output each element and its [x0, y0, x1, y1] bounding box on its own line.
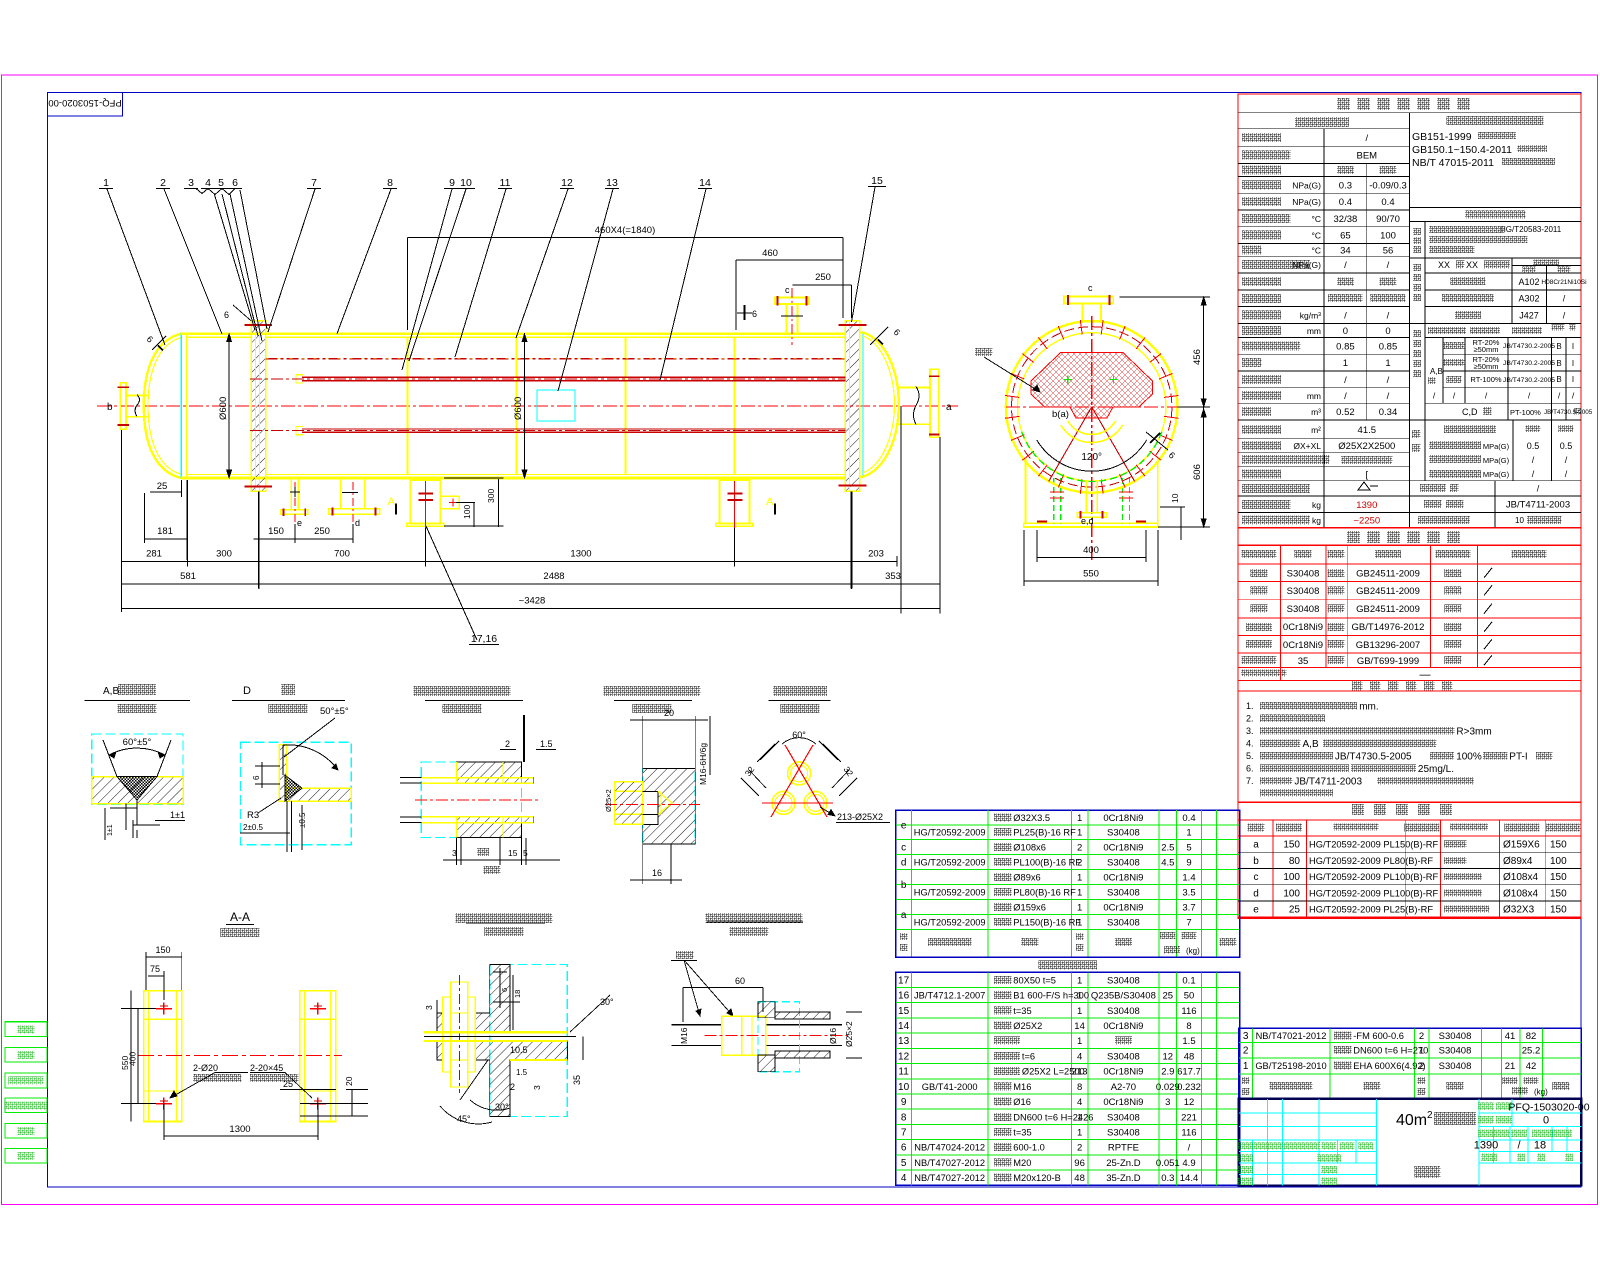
- svg-text:2.: 2.: [1246, 714, 1254, 724]
- svg-text:e: e: [901, 820, 907, 831]
- svg-text:8: 8: [901, 1112, 907, 1123]
- svg-text:A: A: [766, 496, 774, 508]
- svg-text:0.4: 0.4: [1339, 197, 1352, 208]
- svg-text:PFQ-1503020-00: PFQ-1503020-00: [1508, 1102, 1589, 1114]
- svg-text:3: 3: [452, 848, 457, 858]
- svg-text:0Cr18Ni9: 0Cr18Ni9: [1103, 872, 1143, 883]
- svg-text:50°±5°: 50°±5°: [320, 706, 349, 717]
- bolt circle tick marks: [1164, 416, 1178, 418]
- dim row3: [122, 583, 941, 585]
- svg-text:2: 2: [510, 1082, 515, 1092]
- detail tubesheet hatch upper: [457, 762, 534, 783]
- svg-text:100%: 100%: [1456, 752, 1482, 763]
- detail tie-rod tubesheet hatch: [643, 769, 696, 844]
- dim dia600 mid: [524, 334, 526, 478]
- svg-text:14: 14: [699, 177, 711, 189]
- detail tube-tubesheet cyan boundary: [421, 762, 521, 838]
- svg-text:Ø159X6: Ø159X6: [1503, 840, 1540, 851]
- dim row4 overall: [122, 608, 941, 610]
- svg-text:12: 12: [1184, 1097, 1195, 1108]
- svg-text:JB/T4711-2003: JB/T4711-2003: [1506, 500, 1570, 511]
- svg-text:34: 34: [1340, 245, 1351, 256]
- svg-text:B: B: [1556, 375, 1561, 384]
- right tubesheet with girth flanges: [845, 321, 859, 492]
- svg-text:300: 300: [486, 489, 496, 503]
- svg-text:A2-70: A2-70: [1111, 1082, 1136, 1093]
- nozzle e neck: [290, 478, 292, 510]
- svg-text:B: B: [1556, 359, 1561, 368]
- svg-text:H08Cr21Ni10Si: H08Cr21Ni10Si: [1541, 279, 1586, 286]
- dim 400 bottom: [1037, 557, 1146, 559]
- svg-text:PT-100%: PT-100%: [1510, 408, 1541, 417]
- detail tube-tubesheet title: [413, 686, 510, 696]
- svg-text:/: /: [1387, 375, 1390, 386]
- svg-text:16: 16: [898, 991, 910, 1002]
- svg-text:GB151-1999: GB151-1999: [1412, 131, 1472, 143]
- leader lines 3456: [214, 193, 255, 330]
- svg-text:2488: 2488: [543, 571, 564, 582]
- svg-text:96: 96: [1074, 1158, 1085, 1169]
- svg-text:Ø600: Ø600: [218, 397, 229, 420]
- svg-text:6: 6: [252, 775, 261, 780]
- svg-text:a: a: [901, 910, 907, 921]
- rod-baffle dim 60: [683, 987, 763, 989]
- svg-text:250: 250: [815, 272, 831, 283]
- svg-text:/: /: [1344, 311, 1347, 322]
- svg-text:A-A: A-A: [230, 910, 250, 924]
- detail tube wall top: [421, 777, 533, 779]
- right flange bolts bottom: [838, 484, 866, 486]
- A-A dim 150: [146, 956, 182, 958]
- svg-text:c: c: [1088, 283, 1093, 293]
- svg-text:t=35: t=35: [1013, 1128, 1031, 1138]
- svg-text:6: 6: [224, 310, 229, 320]
- dim 100 saddle lug: [473, 503, 475, 527]
- detail D angle arc: [282, 745, 284, 775]
- svg-text:—: —: [1420, 669, 1431, 681]
- svg-text:I: I: [1572, 342, 1574, 351]
- svg-text:100: 100: [462, 505, 472, 519]
- svg-text:4: 4: [1077, 1097, 1082, 1108]
- svg-text:1: 1: [1077, 903, 1082, 914]
- svg-text:20: 20: [664, 708, 674, 718]
- svg-text:≥50mm: ≥50mm: [1474, 345, 1499, 354]
- dim row1 150: [254, 538, 295, 540]
- rod-baffle baffle hatch: [758, 1002, 830, 1020]
- svg-text:JB/T4730.5-2005: JB/T4730.5-2005: [1335, 752, 1412, 763]
- svg-text:25-Zn.D: 25-Zn.D: [1106, 1158, 1140, 1169]
- svg-text:M16: M16: [679, 1027, 689, 1044]
- design params value subheader: [1337, 166, 1354, 174]
- end view bottom nozzle flange: [1077, 513, 1106, 518]
- left margin signature boxes: [5, 1022, 47, 1037]
- left dished head: [144, 334, 181, 478]
- nozzle e flange: [281, 510, 308, 515]
- svg-text:NPa(G): NPa(G): [1292, 197, 1321, 207]
- A-A dim 75: [148, 975, 164, 977]
- svg-text:60°±5°: 60°±5°: [123, 737, 152, 748]
- detail tie-rod dim 20: [642, 716, 644, 768]
- svg-text:42: 42: [1526, 1061, 1537, 1072]
- heat treat / transport rows: [1420, 484, 1446, 492]
- design params grid rows: [1238, 146, 1410, 148]
- svg-text:250: 250: [314, 526, 330, 537]
- svg-text:Q235B/S30408: Q235B/S30408: [1091, 991, 1156, 1002]
- svg-text:1: 1: [1077, 828, 1082, 839]
- svg-text:60: 60: [735, 976, 745, 986]
- end view nozzle c flange: [1064, 297, 1113, 304]
- svg-text:150: 150: [1550, 905, 1567, 916]
- parts 3-2-1 table border: [1239, 1028, 1582, 1099]
- svg-text:1390: 1390: [1474, 1140, 1498, 1152]
- rod-baffle rod lines: [672, 1024, 843, 1026]
- svg-text:25: 25: [1289, 905, 1301, 916]
- svg-text:0.5: 0.5: [1527, 441, 1540, 451]
- detail A-B root dims: [125, 804, 127, 830]
- svg-text:3: 3: [1243, 1031, 1249, 1042]
- title block outer border: [1239, 1099, 1582, 1186]
- svg-text:B: B: [1556, 342, 1561, 351]
- A-A dim 1300: [163, 1104, 165, 1140]
- svg-text:M20: M20: [1013, 1158, 1031, 1168]
- svg-text:150: 150: [155, 945, 170, 955]
- svg-text:S30408: S30408: [1107, 1006, 1140, 1017]
- svg-text:2: 2: [1419, 1031, 1424, 1042]
- svg-text:4: 4: [901, 1173, 907, 1184]
- svg-text:0Cr18Ni9: 0Cr18Ni9: [1283, 622, 1323, 633]
- svg-text:/: /: [1344, 391, 1347, 402]
- title block left signature grid: [1239, 1112, 1377, 1114]
- dim row2 baseline: [122, 560, 898, 562]
- svg-text:5.: 5.: [1246, 751, 1254, 761]
- svg-text:S30408: S30408: [1107, 918, 1140, 929]
- svg-text:(kg): (kg): [1186, 947, 1200, 956]
- svg-text:JB/T4730.5-2005: JB/T4730.5-2005: [1544, 409, 1593, 416]
- svg-text:6: 6: [901, 1143, 907, 1154]
- design params column lines: [1323, 129, 1325, 528]
- welding material block: [1424, 258, 1426, 323]
- svg-text:JB/T4730.2-2005: JB/T4730.2-2005: [1503, 377, 1555, 384]
- nozzle d centerline: [352, 482, 354, 522]
- nozzle d flange: [329, 509, 380, 515]
- svg-text:NB/T 47015-2011: NB/T 47015-2011: [1412, 157, 1494, 169]
- svg-text:1: 1: [1077, 1112, 1082, 1123]
- svg-text:15: 15: [508, 848, 518, 858]
- dim 606 vertical: [1203, 407, 1205, 527]
- impingement arc yellow: [1061, 425, 1123, 443]
- svg-text:/: /: [1387, 311, 1390, 322]
- detail tie-rod dim 16: [642, 844, 644, 884]
- svg-text:100: 100: [1283, 888, 1300, 899]
- detail tie-rod thread: [643, 790, 658, 792]
- svg-text:8: 8: [1186, 1021, 1191, 1032]
- left signature role labels: [1238, 1155, 1254, 1163]
- baffles: [407, 338, 409, 475]
- nozzle e bolts: [283, 509, 285, 517]
- detail D cyan boundary: [241, 742, 352, 845]
- end view bolt circle red dashed: [1011, 327, 1171, 487]
- svg-text:1: 1: [1077, 1036, 1082, 1047]
- detail D weld joint title: [281, 684, 295, 695]
- svg-text:0: 0: [1543, 1115, 1549, 1127]
- svg-text:S30408: S30408: [1287, 568, 1320, 579]
- tube field green center marks: [1064, 379, 1072, 381]
- svg-text:0Cr18Ni9: 0Cr18Ni9: [1103, 1021, 1143, 1032]
- svg-text:120°: 120°: [1081, 452, 1102, 463]
- svg-text:0.3: 0.3: [1161, 1173, 1174, 1184]
- svg-text:C,D: C,D: [1462, 407, 1478, 417]
- svg-text:0.029: 0.029: [1156, 1082, 1180, 1093]
- svg-text:0Cr18Ni9: 0Cr18Ni9: [1103, 813, 1143, 824]
- svg-text:281: 281: [146, 549, 162, 560]
- skirt anchor bolt lines green: [1053, 478, 1055, 523]
- svg-text:7: 7: [1186, 918, 1191, 929]
- svg-text:GB24511-2009: GB24511-2009: [1356, 568, 1420, 579]
- saddle right weld crosses: [727, 493, 742, 495]
- svg-text:DN600 t=6 H=270: DN600 t=6 H=270: [1353, 1045, 1428, 1055]
- svg-text:JB/T4712.1-2007: JB/T4712.1-2007: [914, 991, 985, 1001]
- svg-text:1.5: 1.5: [540, 739, 553, 749]
- A-A left extent lines: [121, 1008, 156, 1010]
- svg-text:GB13296-2007: GB13296-2007: [1356, 640, 1420, 651]
- parts table grid: [1239, 1042, 1582, 1044]
- svg-text:10: 10: [1170, 493, 1180, 503]
- svg-text:25: 25: [283, 1079, 293, 1089]
- svg-text:°C: °C: [1311, 245, 1321, 255]
- svg-text:4.: 4.: [1246, 739, 1254, 749]
- svg-text:S30408: S30408: [1287, 604, 1320, 615]
- svg-text:M20x120-B: M20x120-B: [1013, 1173, 1061, 1183]
- svg-text:e: e: [1253, 905, 1259, 916]
- svg-text:8: 8: [1077, 1082, 1082, 1093]
- saddle support right web: [719, 480, 749, 524]
- svg-text:581: 581: [180, 571, 196, 582]
- svg-text:0.051: 0.051: [1156, 1158, 1180, 1169]
- svg-text:S30408: S30408: [1107, 1112, 1140, 1123]
- detail tie-rod cyan boundary: [643, 769, 696, 844]
- svg-text:kg: kg: [1312, 516, 1321, 526]
- tube row centerline upper: [266, 358, 846, 360]
- tubesheet-flange dims 6 18: [499, 968, 501, 1008]
- svg-text:16: 16: [652, 868, 662, 878]
- svg-text:45°: 45°: [457, 1114, 471, 1124]
- svg-text:RPTFE: RPTFE: [1108, 1143, 1139, 1154]
- svg-text:A302: A302: [1518, 294, 1539, 304]
- svg-text:A102: A102: [1518, 277, 1539, 287]
- svg-text:150: 150: [1550, 840, 1567, 851]
- dim 10 base: [1180, 507, 1182, 540]
- svg-text:Ø89x4: Ø89x4: [1503, 856, 1533, 867]
- svg-text:4.5: 4.5: [1161, 857, 1174, 868]
- svg-text:PL150(B)-16 RF: PL150(B)-16 RF: [1013, 918, 1081, 928]
- nozzle e centerline: [294, 482, 296, 522]
- svg-text:d: d: [1253, 888, 1259, 899]
- saddle support left web: [410, 480, 440, 524]
- svg-text:GB24511-2009: GB24511-2009: [1356, 586, 1420, 597]
- svg-text:1: 1: [1419, 1045, 1424, 1056]
- ndt block: [1410, 322, 1582, 324]
- svg-text:9: 9: [901, 1097, 907, 1108]
- svg-text:I: I: [1572, 359, 1574, 368]
- svg-text:4: 4: [1077, 1052, 1082, 1063]
- svg-text:XX: XX: [1438, 260, 1450, 270]
- svg-text:1±1: 1±1: [107, 824, 114, 836]
- svg-text:50: 50: [1184, 991, 1195, 1002]
- svg-text:41: 41: [1505, 1031, 1516, 1042]
- svg-text:213-Ø25X2: 213-Ø25X2: [837, 812, 883, 822]
- detail tube wall bottom: [421, 816, 533, 818]
- svg-text:20: 20: [344, 1076, 354, 1086]
- svg-text:48: 48: [1074, 1173, 1085, 1184]
- svg-text:3.5: 3.5: [1182, 888, 1195, 899]
- svg-text:1: 1: [1385, 358, 1390, 369]
- nozzle e weld tick: [290, 487, 300, 497]
- svg-text:1.5: 1.5: [516, 1068, 528, 1077]
- right shell ring: [860, 331, 864, 333]
- bom upper rows content: [994, 813, 1011, 821]
- svg-text:150: 150: [1550, 872, 1567, 883]
- detail A-B cyan boundary: [92, 734, 183, 804]
- svg-text:Ø600: Ø600: [513, 397, 524, 420]
- svg-text:353: 353: [885, 571, 901, 582]
- svg-text:100: 100: [1283, 872, 1300, 883]
- flange facing note lines: [1410, 257, 1582, 259]
- nozzle c flange: [775, 298, 809, 305]
- svg-text:25.2: 25.2: [1522, 1045, 1541, 1056]
- A-A hole crosses: [156, 1008, 172, 1010]
- fabrication requirement header: [1410, 207, 1582, 209]
- svg-text:°C: °C: [1311, 214, 1321, 224]
- svg-text:NB/T47021-2012: NB/T47021-2012: [1256, 1031, 1327, 1041]
- svg-text:HG/T20583-2011: HG/T20583-2011: [1500, 225, 1562, 234]
- tube hole 60 dim: [760, 741, 779, 760]
- right head tangent line: [862, 332, 864, 476]
- svg-text:Ø16: Ø16: [1013, 1097, 1031, 1107]
- green dashed lower arc: [1022, 432, 1162, 482]
- svg-text:1: 1: [103, 177, 109, 189]
- svg-text:A: A: [388, 496, 396, 508]
- base plate bolt marks: [1037, 521, 1047, 523]
- svg-text:41.5: 41.5: [1358, 425, 1377, 436]
- dim 250 line: [793, 284, 852, 286]
- dim row1 250: [295, 538, 353, 540]
- svg-text:c: c: [901, 842, 906, 853]
- svg-text:Ø25X2: Ø25X2: [1013, 1021, 1042, 1031]
- dim row1 181: [145, 538, 187, 540]
- svg-text:Ø25×2: Ø25×2: [844, 1021, 854, 1047]
- parts header: [1242, 1077, 1250, 1084]
- svg-text:56: 56: [1383, 245, 1394, 256]
- svg-text:m²: m²: [1311, 425, 1321, 435]
- dim 460 line: [736, 259, 843, 261]
- svg-text:A,B: A,B: [103, 686, 119, 697]
- material recheck row: [1241, 670, 1286, 677]
- bom upper table border: [896, 810, 1240, 957]
- svg-text:150: 150: [1550, 888, 1567, 899]
- left head weld seam: [186, 334, 188, 478]
- 120 degree sector lines: [1049, 407, 1092, 482]
- svg-text:700: 700: [334, 549, 350, 560]
- svg-text:±0.5: ±0.5: [298, 812, 307, 828]
- svg-text:7: 7: [901, 1128, 907, 1139]
- nozzle b neck: [126, 395, 147, 397]
- bottom nozzle bolts: [1080, 511, 1082, 519]
- detail A-B weld joint title: [118, 684, 156, 695]
- svg-text:0.85: 0.85: [1379, 342, 1398, 353]
- svg-text:/: /: [1387, 260, 1390, 271]
- title block sheet labels: [1481, 1154, 1497, 1162]
- svg-text:32/38: 32/38: [1334, 214, 1358, 225]
- end view centerline vertical: [1091, 316, 1093, 560]
- bom header row: [900, 933, 908, 940]
- svg-text:0Cr18Ni9: 0Cr18Ni9: [1283, 640, 1323, 651]
- svg-text:14: 14: [1074, 1021, 1085, 1032]
- svg-text:b: b: [1253, 856, 1259, 867]
- end view support skirt: [1025, 458, 1027, 523]
- svg-text:0.5: 0.5: [1560, 441, 1573, 451]
- svg-text:1±1: 1±1: [170, 810, 185, 820]
- svg-text:0Cr18Ni9: 0Cr18Ni9: [1103, 842, 1143, 853]
- svg-text:d: d: [901, 857, 907, 868]
- svg-text:S30408: S30408: [1107, 888, 1140, 899]
- svg-text:1300: 1300: [570, 549, 591, 560]
- svg-text:9: 9: [1186, 857, 1191, 868]
- svg-text:JB/T4711-2003: JB/T4711-2003: [1294, 777, 1362, 788]
- svg-text:35: 35: [572, 1075, 582, 1085]
- svg-text:5: 5: [901, 1158, 907, 1169]
- svg-text:JB/T4730.2-2005: JB/T4730.2-2005: [1503, 360, 1555, 367]
- dim 456 vertical: [1203, 297, 1205, 407]
- svg-text:150: 150: [1283, 840, 1300, 851]
- title block weight scale labels: [1478, 1130, 1494, 1138]
- gasket yellow band: [424, 1031, 567, 1033]
- svg-text:18: 18: [513, 990, 522, 998]
- svg-text:7.: 7.: [1246, 776, 1254, 786]
- svg-text:1300: 1300: [229, 1124, 250, 1135]
- end view shell outer circle: [1006, 321, 1178, 493]
- svg-text:kg: kg: [1312, 500, 1321, 510]
- svg-text:XX: XX: [1466, 260, 1478, 270]
- title block drawing type: [1415, 1166, 1441, 1178]
- svg-text:15: 15: [871, 175, 883, 187]
- materials rows: [1250, 569, 1267, 577]
- svg-text:HG/T20592-2009 PL80(B)-RF: HG/T20592-2009 PL80(B)-RF: [1309, 856, 1433, 866]
- row2 extension lines: [121, 430, 123, 612]
- svg-text:e,d: e,d: [1081, 516, 1094, 526]
- svg-text:GB/T41-2000: GB/T41-2000: [922, 1082, 978, 1092]
- nozzle b flange: [120, 383, 126, 429]
- svg-text:10.5: 10.5: [510, 1045, 528, 1055]
- svg-text:I: I: [1572, 375, 1574, 384]
- pressure test block: [1412, 430, 1421, 438]
- svg-text:3: 3: [188, 177, 194, 189]
- svg-text:2±0.5: 2±0.5: [243, 823, 264, 832]
- svg-text:HG/T20592-2009: HG/T20592-2009: [914, 857, 986, 867]
- detail tie-rod shaft: [615, 781, 643, 783]
- end view centerline horizontal: [1006, 406, 1178, 408]
- svg-text:mm: mm: [1307, 391, 1321, 401]
- svg-text:82: 82: [1526, 1031, 1537, 1042]
- svg-text:0Cr18Ni9: 0Cr18Ni9: [1103, 1097, 1143, 1108]
- svg-text:S30408: S30408: [1287, 586, 1320, 597]
- svg-text:NPa(G): NPa(G): [1292, 260, 1321, 270]
- saddle lug cross: [449, 502, 457, 504]
- svg-text:0.4: 0.4: [1381, 197, 1394, 208]
- svg-text:18: 18: [1534, 1140, 1546, 1152]
- tube upper pair: [302, 376, 845, 378]
- nameplate cyan box: [537, 390, 575, 421]
- svg-text:RT-100%: RT-100%: [1470, 375, 1501, 384]
